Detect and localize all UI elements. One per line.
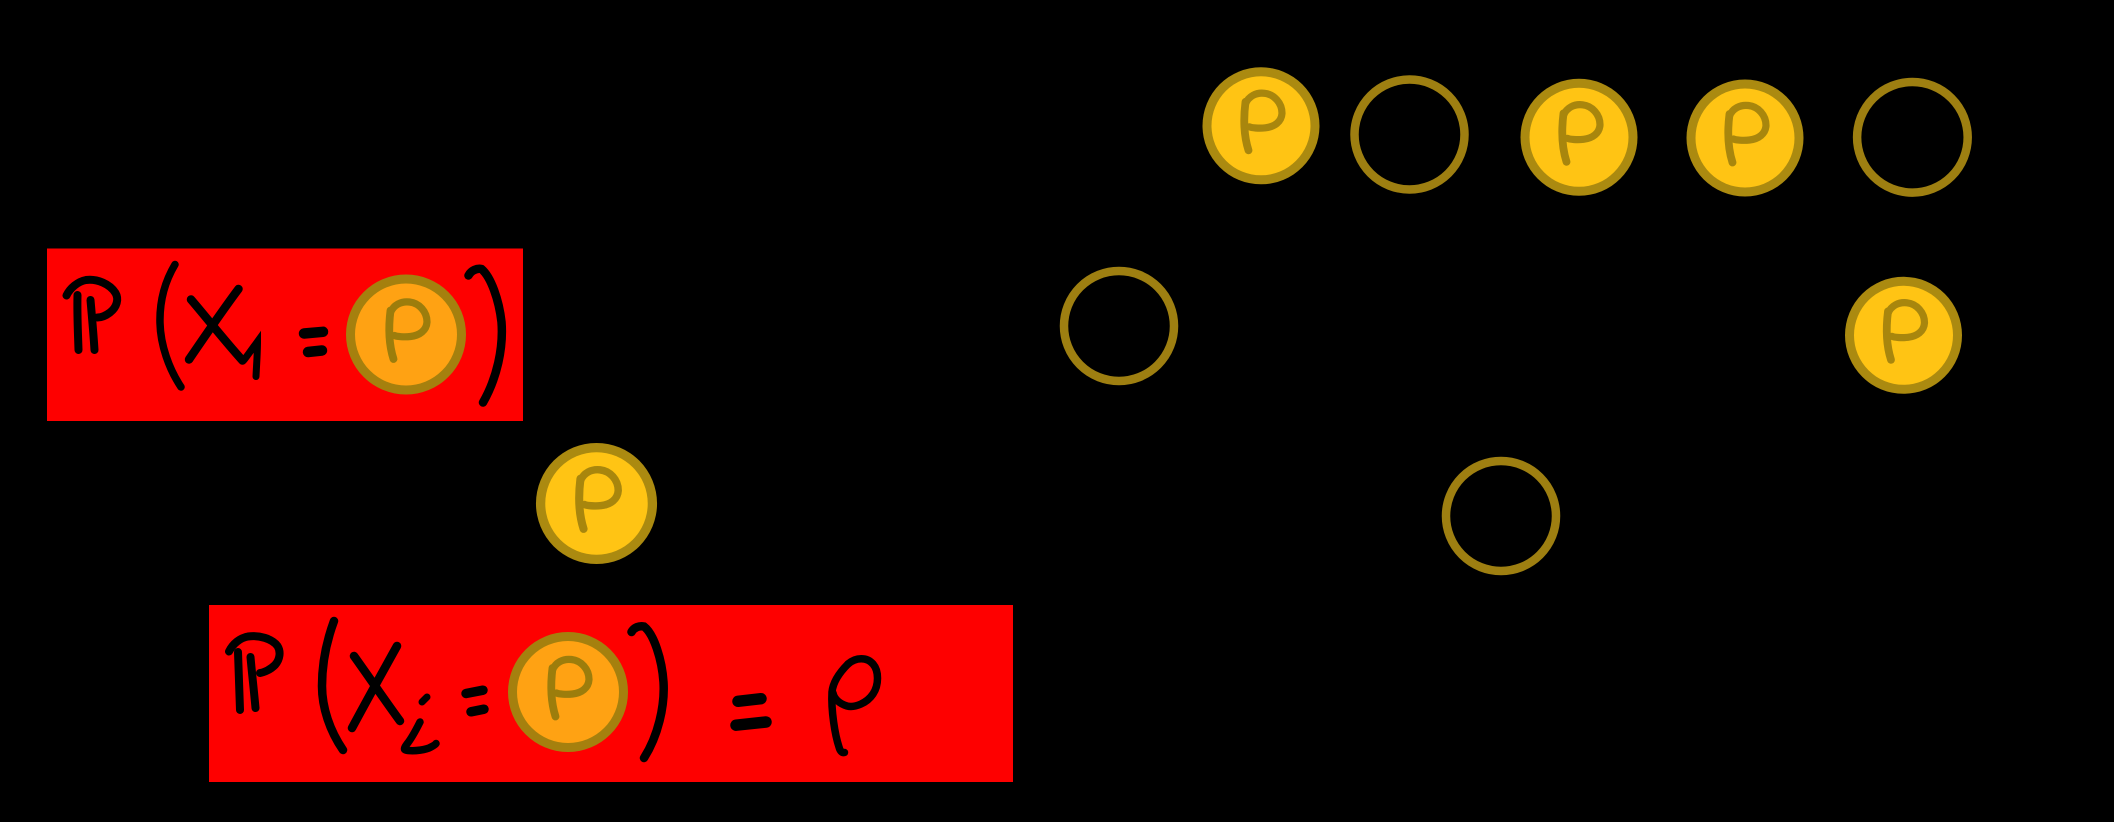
yellow coin right middle (1845, 277, 1962, 394)
right paren of box 2 (632, 626, 664, 758)
empty circle middle left (1064, 271, 1174, 381)
coin row: empty circle 2 (1355, 80, 1465, 190)
subscript 1 of box 1 (244, 342, 258, 377)
X of box 1 (189, 289, 243, 361)
left paren of box 1 (160, 265, 181, 388)
coin row: yellow coin 1 (1203, 67, 1320, 184)
empty circle lower middle (1446, 461, 1556, 571)
right paren of box 1 (469, 269, 502, 403)
coin row: empty circle 5 (1857, 82, 1968, 193)
orange coin inside box 2 (508, 632, 628, 752)
coin row: yellow coin 3 (1521, 79, 1638, 196)
yellow coin between boxes (536, 443, 657, 564)
X of box 2 (352, 646, 400, 728)
equals sign of box 1 (304, 332, 323, 352)
equals sign after parens of box 2 (736, 699, 766, 726)
red highlight box 2 (209, 605, 1013, 782)
left paren of box 2 (322, 621, 343, 750)
red highlight box 1 (47, 249, 523, 422)
equals sign inside parens of box 2 (466, 690, 484, 712)
double-struck P of box 2 (229, 636, 280, 710)
double-struck P of box 1 (67, 280, 118, 350)
handwritten p (probability) of box 2 (832, 659, 878, 753)
coin row: yellow coin 4 (1687, 80, 1804, 197)
subscript i of box 2 (405, 697, 437, 751)
orange coin inside box 1 (346, 275, 466, 395)
